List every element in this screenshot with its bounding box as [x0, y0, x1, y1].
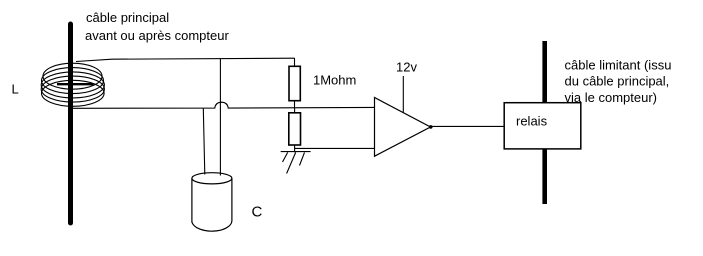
- cable principal (thick left vertical cable): [68, 24, 73, 223]
- wire: top wire from coil to R1: [76, 58, 295, 61]
- wire: op-amp output to relay: [431, 125, 505, 127]
- wire: R2 bottom lead: [294, 145, 296, 152]
- wire: R1 bottom lead to bottom wire: [294, 101, 296, 108]
- wire: capacitor right lead (from top wire, passes under hop): [219, 59, 221, 176]
- svg-text:L: L: [12, 82, 19, 97]
- svg-text:relais: relais: [516, 113, 548, 128]
- wire: R1 top lead: [294, 58, 296, 66]
- label: câble limitant (issu du câble principal, via le compteur): [565, 57, 672, 105]
- wire: capacitor left lead (from bottom wire): [203, 108, 205, 174]
- resistor R1 (1Mohm): [289, 66, 300, 100]
- wire: R2/ground node to op-amp inverting input: [295, 147, 375, 149]
- inductor middle dark bar: [57, 83, 94, 85]
- svg-text:câble limitant (issu: câble limitant (issu: [565, 57, 672, 72]
- op-amp output junction dot: [429, 125, 433, 129]
- wire: bottom wire from coil to op-amp input (with hop over capacitor lead): [72, 102, 375, 108]
- capacitor C (cylinder): [192, 173, 232, 231]
- wire: R2 top lead: [294, 108, 296, 113]
- ground (bar with three hatches): [281, 152, 311, 174]
- svg-text:du câble principal,: du câble principal,: [565, 74, 670, 89]
- cable limitant lower thick segment: [542, 149, 547, 204]
- svg-text:1Mohm: 1Mohm: [313, 72, 356, 87]
- svg-text:12v: 12v: [396, 60, 417, 75]
- cable limitant upper thick segment: [542, 41, 547, 103]
- svg-text:via le compteur): via le compteur): [565, 90, 657, 105]
- wire: 12v supply to op-amp: [402, 76, 404, 113]
- svg-text:câble principal: câble principal: [86, 10, 169, 25]
- svg-text:avant ou après compteur: avant ou après compteur: [85, 28, 229, 43]
- op-amp U1 (comparator triangle): [375, 98, 431, 157]
- resistor R2: [289, 113, 301, 145]
- inductor L (coil of 5 ellipses around cable): [41, 63, 104, 106]
- label: câble principal / avant ou après compteur: [85, 10, 229, 43]
- relay box "relais": [504, 103, 581, 149]
- svg-text:C: C: [252, 204, 263, 221]
